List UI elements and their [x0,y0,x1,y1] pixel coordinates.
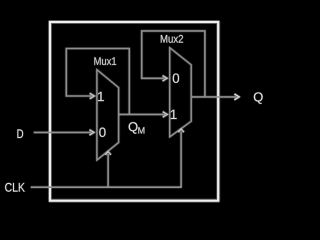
arrowhead into Mux2 select [178,129,184,132]
wire D input [34,131,92,133]
arrowhead into Mux2 input 0 [162,76,167,82]
wire Mux2 select (from CLK) [180,132,182,188]
arrowhead into Mux1 input 0 [89,130,94,136]
label D [17,129,23,138]
wire CLK [31,186,182,188]
pin label 0 of Mux2 [173,73,179,82]
wire Mux1 select (from CLK) [107,154,109,187]
node QM label [129,122,138,134]
wire Mux2 feedback loop (output to input 0) [142,31,205,97]
pin label 1 of Mux2 [171,110,177,119]
arrowhead into Mux1 input 1 [90,93,95,99]
pin label 0 of Mux1 [99,128,105,137]
label CLK [5,183,25,192]
wire Mux1 output QM to Mux2 input 1 [119,113,165,115]
wire Q output [191,96,236,98]
label Mux1 [94,57,116,65]
mux Mux1 trapezoid [97,70,119,160]
arrowhead into Mux1 select [105,152,111,155]
mux Mux2 trapezoid [170,48,192,137]
outer box (flip-flop boundary) [50,22,218,201]
arrowhead Q output [234,94,239,100]
arrowhead into Mux2 input 1 [163,112,168,118]
pin label 1 of Mux1 [98,92,104,101]
wire Mux1 feedback loop (output to input 1) [66,49,129,115]
label Q [254,92,263,104]
label Mux2 [161,35,183,43]
